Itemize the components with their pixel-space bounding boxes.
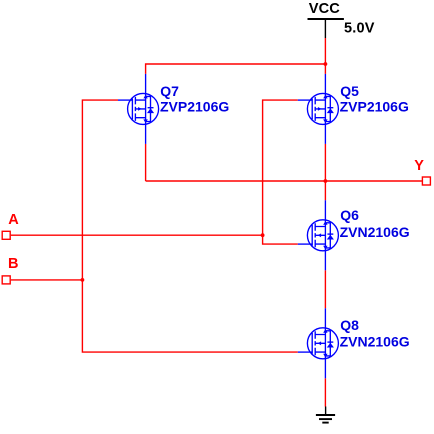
junction Y net — [324, 179, 328, 183]
junction VCC — [324, 62, 328, 66]
wire left vertical B net to Q7 and Q8 gates — [82, 100, 297, 352]
svg-text:VCC: VCC — [309, 1, 341, 17]
junction B net — [81, 278, 85, 282]
terminal B — [2, 276, 10, 284]
wire B input to left vertical — [11, 279, 83, 281]
svg-text:Y: Y — [414, 158, 424, 174]
junction A net — [261, 233, 265, 237]
wire Q8 source to ground — [324, 378, 326, 406]
transistor Q7 PMOS — [118, 74, 159, 144]
wire A input — [11, 234, 263, 236]
wire A net to Q6 gate — [263, 235, 298, 244]
svg-text:Q8: Q8 — [340, 317, 359, 333]
ground — [316, 407, 335, 423]
svg-text:B: B — [8, 256, 18, 272]
svg-text:ZVN2106G: ZVN2106G — [340, 224, 410, 240]
svg-text:5.0V: 5.0V — [344, 20, 375, 36]
svg-text:ZVN2106G: ZVN2106G — [340, 334, 410, 350]
svg-text:A: A — [8, 212, 19, 228]
transistor Q8 NMOS — [298, 308, 339, 378]
wire Y output line — [146, 180, 422, 182]
terminal A — [2, 231, 10, 239]
svg-text:ZVP2106G: ZVP2106G — [340, 99, 409, 115]
wire Q7 drain down to Y line — [145, 144, 147, 181]
wire VCC to junction — [324, 38, 326, 74]
transistor Q6 NMOS — [298, 200, 339, 270]
transistor Q5 PMOS — [298, 74, 339, 144]
terminal Y — [422, 177, 430, 185]
svg-text:Q7: Q7 — [160, 83, 179, 99]
wire VCC branch to Q7 drain — [146, 64, 326, 74]
svg-text:ZVP2106G: ZVP2106G — [160, 99, 229, 115]
VCC power symbol — [308, 19, 344, 38]
svg-text:Q5: Q5 — [340, 83, 359, 99]
wire Q6 source to Q8 drain — [324, 270, 326, 308]
wire Q5 drain to Q6 drain — [324, 144, 326, 200]
svg-text:Q6: Q6 — [340, 207, 359, 223]
wire A net vertical to Q5 gate — [263, 100, 298, 235]
